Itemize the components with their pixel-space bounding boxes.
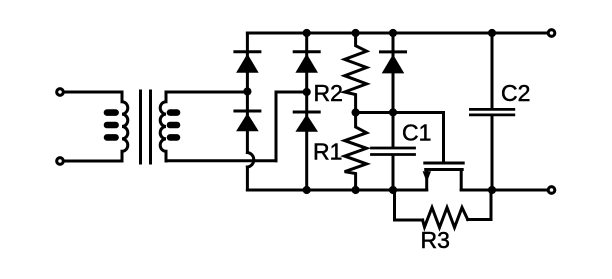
diode D5 cathode bar (381, 50, 406, 53)
svg-text:C2: C2 (501, 80, 530, 106)
capacitor C2 plates (470, 109, 513, 115)
node dot D5/C1 junction (389, 108, 397, 116)
transformer core (141, 91, 151, 163)
node dot left bridge mid (243, 87, 251, 95)
transformer primary winding L1 curl blobs (107, 113, 116, 138)
node dot R2/R1 junction (352, 108, 360, 116)
MOSFET Q1 drain lead (460, 170, 463, 191)
input terminal top-left (57, 89, 64, 96)
wire bridge input jog vertical (276, 92, 307, 161)
output terminal bottom-right (548, 187, 555, 194)
diode D1 triangle (236, 54, 259, 73)
wire secondary top to bridge (166, 91, 247, 94)
resistor R3 loop left drop (395, 190, 423, 220)
wire secondary bottom to bridge jog (166, 159, 276, 162)
output terminal top-right (548, 30, 555, 37)
diode D5 column (392, 33, 395, 147)
svg-text:R3: R3 (421, 227, 450, 253)
capacitor C1 bottom lead (392, 156, 395, 190)
svg-text:R2: R2 (314, 80, 343, 106)
node dot right bridge mid (303, 88, 311, 96)
resistor R3 right riser (468, 190, 491, 220)
diode D1 cathode bar (235, 50, 260, 53)
MOSFET Q1 gate bar (425, 162, 463, 165)
diode D2 cathode bar (235, 110, 260, 113)
node dot D5 top (389, 29, 397, 37)
MOSFET Q1 channel bar (426, 168, 463, 171)
diode D3 cathode bar (294, 50, 319, 53)
diode D4 triangle (295, 114, 318, 131)
bottom rail right of MOSFET (461, 189, 548, 192)
top rail (247, 32, 548, 35)
node dot R2 top (352, 29, 360, 37)
resistor R2 (345, 33, 367, 113)
node dot D4 bottom (303, 186, 311, 194)
transformer primary winding L1 (122, 92, 128, 161)
diode D3 triangle (295, 54, 318, 73)
node dot R1 bottom (352, 186, 360, 194)
transformer secondary winding L2 (160, 92, 166, 161)
wire primary bottom lead (64, 160, 122, 163)
diode D2 triangle (236, 113, 259, 131)
capacitor C2 column top lead (491, 33, 494, 108)
svg-text:R1: R1 (313, 139, 342, 165)
resistor R1 (345, 113, 367, 191)
capacitor C1 plates (372, 148, 415, 155)
diode D3 column (right) (305, 33, 308, 190)
transformer secondary winding L2 curl blobs (170, 113, 177, 138)
diode D4 cathode bar (294, 111, 319, 114)
node dot C2 top (488, 29, 496, 37)
input terminal bottom-left (57, 158, 64, 165)
resistor R3 zigzag (423, 208, 468, 228)
node dot C2 bottom (488, 186, 496, 194)
MOSFET Q1 source lead (425, 170, 428, 191)
wire R2R1 junction to gate (356, 113, 444, 162)
node dot D3 top (303, 29, 311, 37)
diode D1 column (left) with hop over wire (246, 33, 249, 153)
bottom rail left of MOSFET (247, 189, 426, 192)
svg-text:C1: C1 (402, 119, 431, 145)
node dot C1 bottom (389, 186, 397, 194)
capacitor C2 bottom lead (491, 116, 494, 190)
diode D5 triangle (382, 54, 405, 73)
MOSFET Q1 source arrow (423, 171, 431, 182)
wire primary top lead (64, 91, 122, 94)
